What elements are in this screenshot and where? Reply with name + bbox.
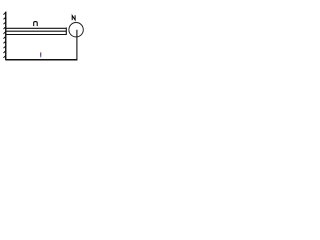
rod bottom edge [6, 34, 67, 36]
label m (rod mass) [34, 22, 38, 27]
bottom reference line [6, 59, 78, 61]
axis line from ball center to bottom line [76, 30, 78, 60]
rod end cap [65, 28, 67, 36]
rod midline [6, 30, 67, 32]
rod top edge [6, 27, 67, 29]
label N (ball) [72, 15, 75, 20]
label l (length, subpixel colored) [40, 52, 41, 57]
wall hatching [4, 12, 6, 58]
wall [5, 12, 7, 61]
ball [69, 23, 83, 37]
